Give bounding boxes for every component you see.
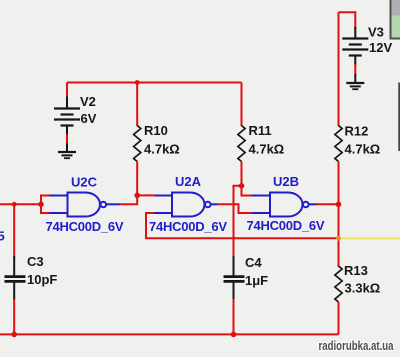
wire: U2C input jumper xyxy=(41,196,50,214)
svg-text:4.7kΩ: 4.7kΩ xyxy=(345,142,381,157)
wire: U2B output to right column xyxy=(316,203,339,205)
wire: top rail V2/R10/R11 xyxy=(67,82,242,84)
ground (V3) xyxy=(346,74,364,89)
node: U2C out / R10 / U2A in xyxy=(134,193,140,199)
svg-text:10pF: 10pF xyxy=(27,272,57,287)
svg-text:5: 5 xyxy=(0,229,5,244)
node: U2C input jumper junction xyxy=(38,202,44,208)
wire: V3 to ground xyxy=(354,64,356,75)
capacitor C3 xyxy=(5,256,26,300)
wire: C3 column upper xyxy=(13,204,15,257)
svg-text:U2C: U2C xyxy=(71,175,98,190)
svg-text:1μF: 1μF xyxy=(245,273,268,288)
wire: right column upper (V3 to R12) xyxy=(338,12,340,126)
node: C4 bottom junction xyxy=(231,332,237,338)
wire: R10 column lower xyxy=(136,162,138,196)
ground (V2) xyxy=(58,144,76,159)
svg-text:74HC00D_6V: 74HC00D_6V xyxy=(149,219,227,234)
svg-text:U2B: U2B xyxy=(273,174,299,189)
svg-text:radiorubka.at.ua: radiorubka.at.ua xyxy=(319,338,395,353)
node: rail to R10 junction xyxy=(135,80,140,85)
wire: bottom rail xyxy=(0,333,339,335)
resistor R10 xyxy=(134,126,141,162)
wire: R10 column upper xyxy=(136,83,138,127)
svg-text:12V: 12V xyxy=(369,40,392,55)
nand gate U2C xyxy=(49,193,120,217)
svg-text:V2: V2 xyxy=(80,94,96,109)
battery V3 xyxy=(342,27,368,65)
wire: V3 top corner xyxy=(339,12,356,29)
wire: V2 to ground xyxy=(66,134,68,145)
wire: C4 column lower xyxy=(233,299,235,334)
svg-text:74HC00D_6V: 74HC00D_6V xyxy=(46,219,124,234)
nand gate U2B xyxy=(252,193,317,217)
node: yellow junction xyxy=(336,236,341,241)
resistor R12 xyxy=(335,126,342,162)
wire: C3 column lower xyxy=(13,299,15,334)
wire: U2A output to U2B bottom input xyxy=(217,204,252,213)
wire: U2C output to node xyxy=(119,195,137,204)
svg-text:R11: R11 xyxy=(249,123,272,138)
instrument box (top right, partial) xyxy=(391,0,400,39)
svg-text:V3: V3 xyxy=(368,25,384,40)
wire: left input feed xyxy=(0,203,41,205)
wire: right column mid (R12 to junctions) xyxy=(338,162,340,268)
wire: node jog to C4 column xyxy=(234,186,242,257)
wire: right column lower (R13 to bottom rail) xyxy=(338,302,340,334)
nand gate U2A xyxy=(155,193,219,217)
svg-text:6V: 6V xyxy=(81,111,97,126)
node: U2B out on right column xyxy=(336,202,342,208)
svg-text:R10: R10 xyxy=(144,123,168,138)
wire: R11 column lower xyxy=(241,162,243,186)
instrument box edge (right, partial) xyxy=(398,83,400,152)
wire: U2A bottom input loop xyxy=(146,213,339,238)
svg-text:C3: C3 xyxy=(27,254,44,269)
svg-text:C4: C4 xyxy=(245,255,262,270)
capacitor C4 xyxy=(224,256,245,300)
resistor R11 xyxy=(238,126,245,162)
resistor R13 xyxy=(335,266,342,302)
battery V2 xyxy=(54,97,80,136)
svg-text:3.3kΩ: 3.3kΩ xyxy=(345,281,381,296)
svg-text:R12: R12 xyxy=(345,124,369,139)
svg-text:4.7kΩ: 4.7kΩ xyxy=(144,142,180,157)
svg-text:U2A: U2A xyxy=(175,174,202,189)
watermark radiorubka.at.ua xyxy=(319,338,396,354)
node: R11 / U2B in / C4 junction xyxy=(239,183,245,189)
svg-text:4.7kΩ: 4.7kΩ xyxy=(249,142,285,157)
node: C3 column junction xyxy=(12,202,17,207)
wire: V2 stem xyxy=(66,83,68,99)
wire: yellow probe wire xyxy=(339,237,400,239)
wire: node to U2B top input xyxy=(242,186,253,196)
wire: R11 column upper xyxy=(241,83,243,127)
node: C3 bottom junction xyxy=(11,332,17,338)
svg-text:R13: R13 xyxy=(344,263,368,278)
wire: node to U2A top input xyxy=(137,194,155,196)
svg-text:74HC00D_6V: 74HC00D_6V xyxy=(247,218,325,233)
